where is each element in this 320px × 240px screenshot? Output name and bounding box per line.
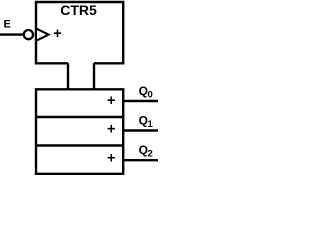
svg-text:+: +	[107, 122, 115, 138]
svg-text:+: +	[107, 93, 115, 109]
svg-text:+: +	[53, 26, 61, 42]
svg-text:1: 1	[148, 119, 154, 130]
svg-text:0: 0	[148, 90, 153, 101]
svg-text:E: E	[4, 19, 11, 31]
svg-text:2: 2	[148, 149, 153, 160]
svg-text:+: +	[107, 150, 115, 166]
svg-text:CTR5: CTR5	[60, 2, 97, 18]
